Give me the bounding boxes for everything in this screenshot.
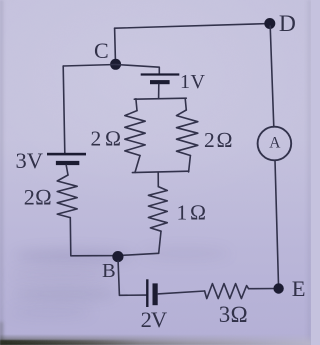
svg-text:1V: 1V	[180, 71, 206, 93]
svg-text:2Ω: 2Ω	[204, 128, 234, 152]
battery 3V	[47, 153, 86, 165]
node C	[110, 59, 121, 70]
svg-text:C: C	[94, 38, 109, 63]
battery 2V	[146, 279, 158, 307]
wire C to left branch	[63, 65, 115, 67]
resistor 1ohm	[148, 187, 167, 232]
svg-text:3Ω: 3Ω	[219, 302, 248, 327]
wire 2V to 3ohm	[158, 291, 205, 294]
svg-text:2Ω: 2Ω	[24, 184, 52, 209]
battery 1V	[141, 73, 180, 84]
node B	[112, 251, 123, 262]
wire bottom rail to 1ohm	[157, 172, 159, 186]
wire B down to 2V battery	[118, 261, 146, 295]
resistor 2ohm outer left	[57, 175, 77, 218]
svg-text:A: A	[269, 135, 281, 152]
resistor 3ohm	[205, 284, 249, 299]
resistor 2ohm parallel right	[177, 110, 198, 156]
wire left vertical to 3V	[63, 66, 65, 153]
wire lead to left 2ohm	[136, 99, 137, 111]
wire bottom rail of parallel pair	[132, 171, 188, 172]
resistor 2ohm parallel left	[125, 111, 145, 156]
svg-text:1Ω: 1Ω	[177, 200, 209, 224]
wire 1V to top rail	[158, 84, 160, 98]
svg-text:2Ω: 2Ω	[91, 126, 125, 150]
wire 3ohm to E	[249, 288, 279, 290]
wire D to ammeter	[270, 26, 274, 127]
wire lead to right 2ohm	[185, 99, 186, 111]
svg-text:2V: 2V	[141, 307, 167, 332]
wire top D to C corner	[115, 24, 270, 64]
wire lead left 2ohm to bottom rail	[135, 156, 140, 173]
wire ammeter to E	[275, 160, 279, 288]
svg-text:3V: 3V	[16, 148, 44, 173]
wire top rail of parallel pair	[134, 98, 186, 99]
svg-text:B: B	[102, 260, 116, 282]
wire C to 1V battery	[116, 65, 160, 75]
wire 3V to resistor 2ohm outer	[66, 165, 68, 175]
svg-text:E: E	[292, 276, 306, 301]
ammeter A	[258, 127, 292, 161]
wire lead right 2ohm to bottom rail	[189, 156, 191, 172]
wire resistor to B rail	[70, 218, 158, 256]
node D	[264, 18, 275, 29]
svg-text:D: D	[279, 11, 296, 37]
node E	[273, 283, 283, 293]
wire 1ohm to B rail	[159, 231, 161, 253]
